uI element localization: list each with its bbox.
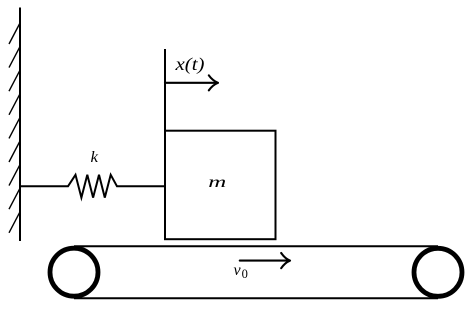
arrow v0 bbox=[240, 253, 290, 268]
svg-text:v0: v0 bbox=[234, 262, 248, 281]
reference line bbox=[164, 49, 166, 131]
mass m block bbox=[165, 131, 276, 240]
svg-text:k: k bbox=[91, 149, 99, 166]
right roller bbox=[414, 248, 462, 296]
belt top line bbox=[74, 245, 438, 247]
belt bottom line bbox=[74, 297, 438, 299]
svg-text:x(t): x(t) bbox=[174, 54, 204, 75]
left roller bbox=[50, 248, 98, 296]
svg-text:m: m bbox=[208, 174, 226, 191]
wall bbox=[19, 8, 21, 242]
spring k bbox=[21, 175, 166, 198]
arrow x(t) bbox=[165, 75, 218, 90]
wall hatching bbox=[9, 23, 20, 233]
